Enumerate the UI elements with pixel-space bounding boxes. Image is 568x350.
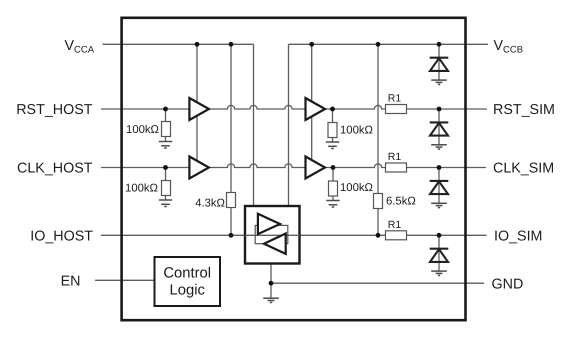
svg-text:GND: GND — [492, 276, 524, 292]
diode D3 CLK_SIM ESD clamp — [430, 168, 449, 208]
node IO_SIM diode junction — [437, 233, 442, 238]
node V_CCB junction diode column — [437, 42, 442, 47]
wire CLK row middle segment with hops — [209, 164, 306, 168]
svg-text:Control: Control — [163, 265, 211, 281]
wire RST row middle segment with hops — [209, 105, 306, 109]
IC boundary box — [122, 18, 466, 320]
resistor 100kΩ CLK_SIM pulldown — [329, 181, 338, 196]
wire vertical 4.3k pull-up column at x=231 — [230, 44, 232, 192]
diode D4 IO_SIM ESD clamp — [430, 235, 449, 275]
svg-text:R1: R1 — [388, 219, 402, 231]
wire EN input to control logic — [95, 279, 155, 281]
ground RST_HOST pulldown — [159, 142, 172, 149]
node V_CCB junction x=378 — [376, 42, 381, 47]
node IO_HOST pull-up junction — [229, 233, 234, 238]
svg-text:Logic: Logic — [170, 282, 206, 298]
node RST_HOST pulldown junction — [163, 107, 168, 112]
wire vertical 6.5k pull-up column at x=378 — [377, 44, 379, 193]
wire RST_SIM output segment — [407, 108, 488, 110]
ground RST_SIM pulldown — [326, 142, 339, 149]
wire IO_HOST input segment — [101, 234, 245, 236]
svg-text:100kΩ: 100kΩ — [125, 182, 158, 194]
svg-text:IO_SIM: IO_SIM — [494, 229, 542, 245]
resistor 100kΩ RST_HOST pulldown — [162, 122, 171, 137]
wire CLK_HOST input segment — [101, 167, 189, 169]
buffer RST A-to-B — [189, 98, 209, 120]
wire vertical V_CCA to IO cell at x=253.5 — [253, 44, 255, 206]
diode D2 RST_SIM ESD clamp — [430, 109, 449, 149]
wire CLK_SIM output segment — [407, 167, 487, 169]
wire CLK right pulldown stub — [332, 168, 334, 182]
svg-text:EN: EN — [61, 274, 81, 290]
svg-text:R1: R1 — [388, 93, 402, 105]
wire vertical V_CCB to IO cell at x=288.5 — [288, 44, 290, 206]
wire RST_HOST input segment — [101, 108, 189, 110]
control logic block — [155, 257, 221, 306]
node RST_SIM diode junction — [437, 107, 442, 112]
node CLK_HOST pulldown junction — [163, 165, 168, 170]
node V_CCA junction x=231 — [229, 42, 234, 47]
node IO_SIM pull-up junction — [376, 233, 381, 238]
wire RST row buffer-to-R1 segment with hop — [325, 105, 386, 109]
wire IO cell ground stem — [270, 264, 272, 299]
svg-text:100kΩ: 100kΩ — [126, 124, 159, 136]
svg-text:6.5kΩ: 6.5kΩ — [386, 196, 416, 208]
svg-text:CLK_SIM: CLK_SIM — [493, 161, 554, 177]
resistor 100kΩ CLK_HOST pulldown — [162, 181, 171, 196]
wire RST left pulldown stub — [165, 109, 167, 122]
svg-text:RST_HOST: RST_HOST — [16, 102, 93, 118]
ground IO cell — [263, 298, 279, 302]
wire resistor-to-ground stubs — [166, 137, 334, 201]
svg-text:4.3kΩ: 4.3kΩ — [195, 197, 225, 209]
node CLK_SIM pulldown junction — [331, 165, 336, 170]
wire vertical V_CCB feed to buffers at x=311.7 — [311, 44, 313, 170]
diode D1 V_CCB ESD clamp — [430, 44, 449, 84]
svg-text:100kΩ: 100kΩ — [340, 182, 373, 194]
wire IO_SIM output segment — [407, 234, 487, 236]
svg-text:IO_HOST: IO_HOST — [30, 229, 93, 245]
wire V_CCB rail — [289, 43, 489, 45]
node V_CCB junction x=311.7 — [309, 42, 314, 47]
svg-text:100kΩ: 100kΩ — [340, 124, 373, 136]
resistor 6.5kΩ IO pull-up — [374, 194, 383, 209]
ground CLK_SIM pulldown — [326, 201, 339, 208]
node RST_SIM pulldown junction — [330, 107, 335, 112]
IO cell auto-direction buffer U2 — [245, 206, 300, 264]
svg-text:CLK_HOST: CLK_HOST — [17, 161, 93, 177]
buffer RST output stage — [306, 98, 326, 120]
wire CLK left pulldown stub — [165, 168, 167, 181]
wire GND rail — [271, 282, 484, 284]
buffer CLK output stage — [306, 157, 326, 179]
node CLK_SIM diode junction — [437, 165, 442, 170]
wire V_CCA rail — [103, 43, 254, 45]
node GND rail junction — [269, 281, 274, 286]
ground CLK_HOST pulldown — [159, 200, 172, 207]
svg-text:RST_SIM: RST_SIM — [493, 102, 555, 118]
wire RST right pulldown stub — [332, 109, 334, 123]
resistor R1 CLK_SIM series — [386, 163, 407, 172]
buffer CLK A-to-B — [189, 157, 209, 179]
wire IO cell to R1 segment — [300, 234, 386, 236]
node V_CCA junction x=197 — [195, 42, 200, 47]
resistor R1 IO_SIM series — [386, 231, 407, 240]
resistor R1 RST_SIM series — [386, 105, 407, 114]
svg-text:R1: R1 — [388, 151, 402, 163]
resistor 4.3kΩ IO pull-up — [227, 193, 236, 208]
wire vertical V_CCA feed to buffers at x=197 — [196, 44, 198, 170]
wire CLK row buffer-to-R1 segment with hop — [325, 164, 386, 168]
resistor 100kΩ RST_SIM pulldown — [328, 123, 337, 138]
